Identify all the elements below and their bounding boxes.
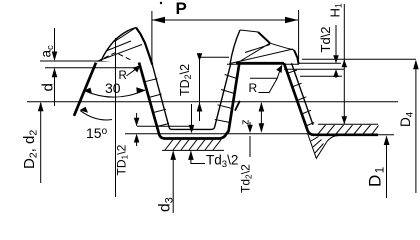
stray dot bbox=[160, 2, 162, 4]
leader 15 degrees bbox=[81, 111, 113, 120]
dimension Td3\2 with leader bbox=[191, 152, 205, 164]
auxiliary line right bbox=[300, 75, 342, 77]
pitch line d2/D2 bbox=[27, 101, 398, 103]
tooth 1 right flank (bolt, thick) with root fillet bbox=[139, 63, 165, 139]
nut tooth V in right groove bbox=[308, 134, 341, 158]
blob 1 hatching bbox=[102, 29, 142, 60]
dimension TD2\2 lower down-arrow bbox=[191, 104, 193, 131]
dimension D1 bbox=[386, 137, 388, 199]
dimension P line bbox=[152, 19, 298, 21]
dimension D4 bbox=[415, 61, 417, 193]
tooth 1 left flank (bolt, thick) bbox=[74, 63, 96, 116]
root upper thin line bbox=[125, 133, 310, 135]
dashed nut min profile over tooth 1 bbox=[97, 53, 131, 62]
crest max line left (d) bbox=[40, 60, 152, 62]
P right arrow bbox=[285, 17, 298, 23]
svg-text:Td\2: Td\2 bbox=[318, 26, 333, 52]
svg-text:d: d bbox=[40, 83, 57, 91]
blob 2 left outline bbox=[230, 30, 240, 64]
nut profile line tooth 2 right outer bbox=[292, 63, 314, 125]
P extension line right bbox=[298, 10, 300, 64]
nut crest root line right (thick) bbox=[313, 133, 378, 136]
short stroke near pitch line bbox=[235, 101, 240, 111]
D1 max line left groove bbox=[137, 125, 190, 127]
D1 upper line right bbox=[318, 123, 378, 125]
blob 2 hatching bbox=[230, 43, 293, 64]
dimension a_c bbox=[54, 28, 56, 60]
dimension Td\2 bbox=[335, 25, 337, 78]
dimension Td2\2 leader bbox=[249, 122, 251, 157]
ladder rungs tooth 2 left flank bbox=[215, 75, 237, 123]
svg-text:TD1\2: TD1\2 bbox=[115, 144, 130, 175]
V hatching bbox=[311, 137, 324, 154]
dimension H1 bbox=[343, 4, 345, 124]
blob 2 bottom edge bbox=[227, 63, 299, 65]
nut root line in groove bbox=[199, 56, 229, 58]
dimension 30 degrees arc bbox=[84, 90, 145, 97]
bolt root d3 (thick) bbox=[164, 137, 219, 140]
D4 level line right bbox=[302, 58, 416, 60]
tooth 1 centerline bbox=[115, 38, 117, 197]
nut material blob over tooth 2 (white fill) bbox=[230, 30, 299, 64]
d3 min line bbox=[162, 149, 224, 151]
P left arrow bbox=[152, 17, 165, 23]
tooth 2 left flank (bolt, thick) with root fillet bbox=[219, 64, 239, 139]
P extension line left bbox=[151, 11, 153, 65]
nut profile line: tooth1 right side down to groove crest and up tooth2 left bbox=[152, 64, 230, 129]
svg-text:TD2\2: TD2\2 bbox=[178, 64, 193, 96]
right band hatching between D1 lines bbox=[318, 125, 379, 134]
dimension TD1\2 bbox=[136, 113, 138, 146]
svg-text:R: R bbox=[249, 81, 258, 95]
svg-text:R: R bbox=[119, 70, 127, 82]
crest min extension right bbox=[284, 68, 344, 70]
blob 1 right break edge bbox=[136, 28, 152, 65]
D1 lower line right bbox=[360, 134, 394, 136]
dimension d bbox=[54, 69, 56, 107]
tooth 2 right flank (bolt, thick) with root fillet bbox=[284, 63, 314, 135]
dimension TD2\2 bbox=[199, 53, 201, 121]
dimension d3 bbox=[172, 152, 174, 214]
bolt root hatching below d3 bbox=[165, 140, 221, 150]
ladder rungs tooth 2 right flank bbox=[288, 70, 315, 126]
svg-text:30: 30 bbox=[105, 80, 121, 96]
nut material blob over tooth 1 (white fill) bbox=[101, 28, 152, 65]
dimension D2 d2 bbox=[40, 103, 42, 183]
crest max extension right bbox=[284, 62, 341, 64]
svg-text:P: P bbox=[176, 0, 187, 18]
blob 1 left outline bbox=[101, 28, 136, 61]
tooth 2 crest (bolt, thick) bbox=[236, 62, 284, 65]
crest min line left (d - Td/2) bbox=[45, 67, 139, 69]
blob 2 top break edge bbox=[240, 30, 294, 50]
dimension z (pitch to root) double arrow bbox=[260, 103, 262, 131]
ladder rungs tooth 1 right flank bbox=[144, 79, 169, 127]
